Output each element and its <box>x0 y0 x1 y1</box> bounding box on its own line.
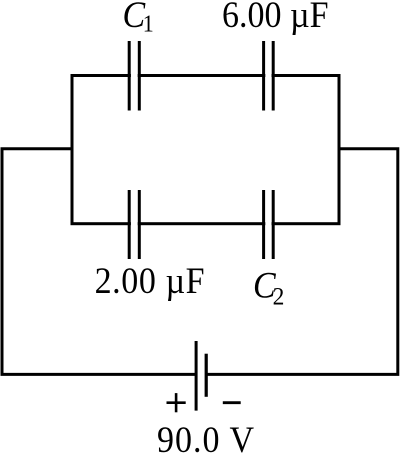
battery minus sign <box>223 401 241 404</box>
wire: gap opening for capacitor C1 <box>131 73 138 79</box>
wire: gap opening for 2.00 uF capacitor <box>131 221 138 227</box>
svg-text:1: 1 <box>143 10 154 37</box>
label C2 <box>253 264 284 311</box>
wire: gap opening for 6.00 uF capacitor <box>265 73 271 79</box>
svg-text:6.00 µF: 6.00 µF <box>222 0 328 35</box>
wire: gap opening for capacitor C2 <box>265 221 271 227</box>
svg-text:2.00 µF: 2.00 µF <box>95 259 205 301</box>
battery plus sign <box>167 393 186 412</box>
capacitor 2.00 uF <box>129 190 139 259</box>
wire: right branch from battery to inner loop <box>206 149 398 375</box>
capacitor C2 <box>264 190 274 259</box>
battery 90.0 V negative plate <box>205 354 208 397</box>
wire: left branch from inner loop to battery <box>2 149 196 375</box>
capacitor C1 <box>129 41 139 111</box>
wire: inner parallel loop rectangle <box>72 76 339 224</box>
battery 90.0 V positive plate <box>195 341 198 411</box>
capacitor 6.00 uF <box>264 41 274 111</box>
svg-text:90.0 V: 90.0 V <box>157 419 254 455</box>
label C1 <box>123 0 154 38</box>
svg-text:2: 2 <box>273 283 285 311</box>
